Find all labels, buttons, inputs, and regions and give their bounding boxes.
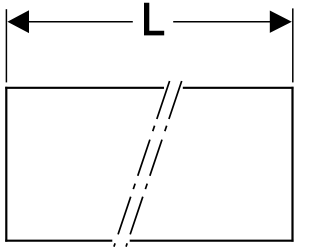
dimension line left segment	[29, 21, 133, 23]
tube outline right edge	[291, 87, 293, 242]
tube outline top edge left part	[5, 87, 164, 89]
break line right (dash-dot)	[126, 81, 182, 247]
tube outline bottom edge right part	[130, 240, 294, 242]
arrowhead right	[270, 11, 292, 33]
break line left (dash-dot)	[114, 81, 170, 247]
tube outline left edge	[5, 87, 7, 242]
tube outline bottom edge left part	[5, 240, 112, 242]
tube outline top edge right part	[183, 87, 294, 89]
extension line left	[5, 9, 7, 82]
arrowhead left	[7, 10, 29, 33]
extension line right	[292, 8, 294, 82]
label L	[144, 3, 164, 36]
dimension line right segment	[173, 21, 270, 23]
